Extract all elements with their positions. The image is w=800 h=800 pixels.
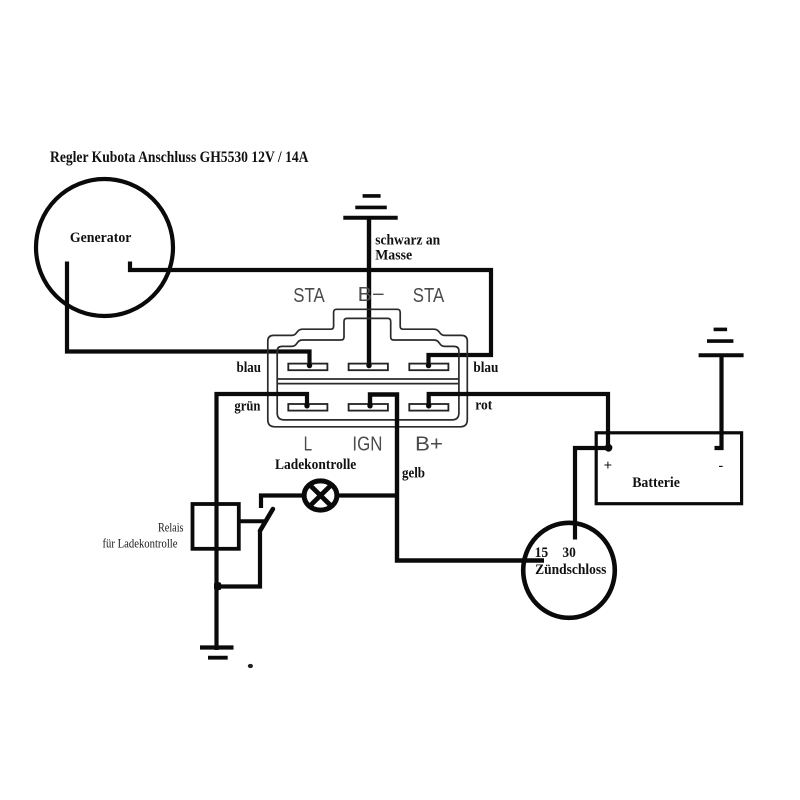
wire lamp left to switch top [261, 496, 303, 509]
svg-text:blau: blau [237, 360, 262, 376]
pin STA right (top-right) [409, 364, 448, 371]
pin B- (top-middle) [349, 364, 388, 371]
svg-text:gelb: gelb [402, 465, 425, 481]
ground top (Masse) [343, 196, 397, 218]
svg-text:Regler Kubota Anschluss GH5530: Regler Kubota Anschluss GH5530 12V / 14A [50, 149, 309, 166]
wire switch bottom to junction [217, 532, 261, 587]
svg-text:grün: grün [234, 398, 260, 414]
connector X1 inner outline [277, 318, 459, 420]
wire lamp right to IGN wire [337, 493, 397, 497]
switch S1 arm [260, 509, 273, 531]
wire B- to ground [367, 218, 371, 367]
wire generator bottom tap to STA left pin (blau left) [67, 262, 310, 367]
svg-text:Masse: Masse [375, 247, 413, 263]
wire battery minus to ground [715, 357, 722, 448]
svg-text:IGN: IGN [352, 434, 382, 456]
wire gelb: pin IGN to Zuendschloss 15 [370, 395, 544, 561]
junction node [214, 582, 221, 590]
pin IGN (bottom-middle) [349, 404, 388, 411]
ground right (battery) [699, 329, 744, 355]
svg-text:für Ladekontrolle: für Ladekontrolle [103, 536, 178, 550]
relais K1 box [193, 504, 239, 549]
svg-text:Relais: Relais [158, 520, 184, 534]
svg-text:STA: STA [293, 285, 325, 307]
svg-text:STA: STA [413, 285, 445, 307]
svg-text:schwarz an: schwarz an [375, 232, 440, 248]
svg-text:30: 30 [562, 545, 575, 561]
svg-text:blau: blau [473, 360, 498, 376]
wire battery plus to Zuendschloss 30 [575, 448, 606, 540]
svg-text:15: 15 [535, 545, 549, 561]
svg-text:Zündschloss: Zündschloss [535, 562, 607, 578]
svg-text:B−: B− [358, 284, 385, 306]
wire tip nodes in pins [304, 363, 431, 409]
ground bottom-left [200, 648, 234, 658]
wire rot: pin B+ to battery plus [429, 394, 608, 448]
lamp H1 Ladekontrolle [304, 481, 337, 510]
connector X1 outer outline [268, 309, 468, 427]
generator G1 [36, 179, 173, 316]
wire generator right tap to STA right pin (blau right) [130, 262, 491, 367]
battery BT1 [596, 433, 741, 504]
stray ink dot [248, 664, 253, 668]
pin B+ (bottom-right) [409, 404, 448, 411]
svg-text:Batterie: Batterie [632, 475, 680, 491]
node battery plus junction [605, 444, 613, 452]
connector divider lines [277, 378, 459, 380]
svg-text:Ladekontrolle: Ladekontrolle [275, 457, 357, 473]
wire gruen: pin L to relay and ground [217, 394, 308, 650]
svg-text:-: - [719, 459, 724, 474]
wire relay contact horizontal [239, 519, 264, 523]
pin STA left (top-left) [288, 364, 327, 371]
svg-text:B+: B+ [415, 434, 443, 456]
svg-text:rot: rot [475, 398, 492, 414]
pin L (bottom-left) [288, 404, 327, 411]
svg-text:L: L [304, 434, 313, 456]
Zuendschloss S2 ignition switch [523, 523, 615, 618]
svg-text:Generator: Generator [70, 230, 132, 246]
svg-text:+: + [604, 458, 613, 474]
